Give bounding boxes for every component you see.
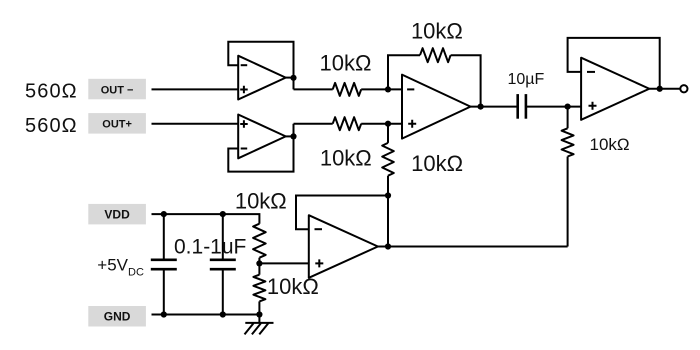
node divider midpoint junction	[256, 260, 262, 266]
node output terminal (open circle)	[680, 85, 687, 92]
node U3 non-inverting input junction	[385, 121, 391, 127]
svg-text:OUT −: OUT −	[101, 84, 134, 96]
capacitor C3 10uF	[518, 94, 526, 119]
resistor R1 10k (divider upper)	[253, 224, 266, 264]
resistor R4 10k (lower series)	[333, 117, 362, 130]
svg-text:10kΩ: 10kΩ	[267, 274, 319, 299]
wire U2 output stub	[286, 135, 294, 137]
node GND / C1 junction	[161, 311, 167, 317]
node OUT+ terminal box	[88, 113, 146, 134]
wire R3 to U3 inverting input	[361, 88, 402, 90]
resistor R6 10k (U4 bias to reference)	[562, 107, 574, 247]
svg-text:10kΩ: 10kΩ	[411, 19, 463, 44]
svg-text:0.1-1uF: 0.1-1uF	[174, 236, 246, 259]
node U5 output junction	[385, 243, 391, 249]
capacitor C2 (bypass)	[210, 214, 236, 314]
svg-text:OUT+: OUT+	[102, 119, 132, 131]
node GND / C2 junction	[220, 311, 226, 317]
op-amp U1 (upper buffer)	[238, 56, 286, 100]
node OUT- terminal box	[88, 79, 146, 100]
op-amp U2 (lower buffer)	[238, 115, 286, 159]
node U1 output junction	[290, 75, 296, 81]
wire GND rail	[152, 314, 260, 316]
node GND / divider junction	[256, 311, 262, 317]
ground symbol	[245, 315, 274, 335]
resistor R2 10k (divider lower)	[253, 263, 265, 314]
svg-text:10kΩ: 10kΩ	[320, 145, 372, 170]
node GND terminal box	[88, 306, 146, 327]
wire R4 to U3 non-inverting input	[361, 123, 402, 125]
node VDD / C2 junction	[220, 211, 226, 217]
svg-text:10kΩ: 10kΩ	[320, 50, 372, 75]
wire U1 output stub	[286, 77, 294, 79]
svg-text:GND: GND	[104, 309, 131, 323]
op-amp U3 (difference amplifier)	[402, 75, 471, 139]
node C3 / U4 input junction	[565, 104, 571, 110]
op-amp U4 (output buffer)	[581, 58, 649, 120]
capacitor C1 (bypass)	[151, 214, 177, 314]
wire U5 output stub	[378, 246, 388, 248]
wire bias node down to U5 output	[387, 196, 389, 247]
wire divider midpoint to U5 non-inverting input	[259, 262, 308, 264]
wire U5 output to R6 bottom	[388, 246, 568, 248]
svg-text:560Ω: 560Ω	[25, 115, 78, 137]
wire U3 feedback (up and over)	[388, 55, 420, 89]
resistor R7 10k (U3 feedback)	[420, 48, 451, 62]
node U2 output junction	[290, 133, 296, 139]
node U5 feedback tap junction	[385, 192, 391, 198]
svg-text:10kΩ: 10kΩ	[235, 189, 287, 214]
svg-text:VDD: VDD	[104, 207, 130, 221]
wire U2 feedback loop	[228, 124, 293, 172]
wire U1 output to R3	[294, 88, 333, 90]
wire U1 feedback loop	[228, 42, 293, 90]
wire VDD rail	[152, 214, 260, 224]
svg-text:10kΩ: 10kΩ	[411, 151, 463, 176]
wire U5 feedback loop	[296, 196, 388, 230]
wire OUT- box to U1 non-inverting input	[152, 88, 239, 90]
op-amp U5 (reference buffer)	[309, 215, 378, 278]
svg-text:560Ω: 560Ω	[25, 81, 78, 103]
node U3 inverting input junction	[385, 86, 391, 92]
node VDD / C1 junction	[161, 211, 167, 217]
wire U4 output to terminal	[660, 88, 681, 90]
wire OUT+ box to U2 non-inverting input	[152, 123, 239, 125]
node VDD terminal box	[88, 204, 146, 225]
wire U3 output to C3	[471, 106, 517, 108]
node U3 output junction	[478, 104, 484, 110]
wire C3 to output-buffer node	[527, 106, 581, 108]
wire U2 output to R4	[294, 123, 333, 125]
wire U4 output stub	[649, 88, 659, 90]
svg-text:10µF: 10µF	[508, 71, 545, 88]
wire U4 feedback loop	[568, 38, 660, 89]
resistor R5 10k (bias, below U3 + input)	[382, 124, 394, 196]
svg-text:10kΩ: 10kΩ	[590, 135, 630, 154]
resistor R3 10k (upper series)	[333, 83, 362, 96]
wire R7 to U3 output	[451, 55, 481, 106]
node U4 output junction	[657, 86, 663, 92]
